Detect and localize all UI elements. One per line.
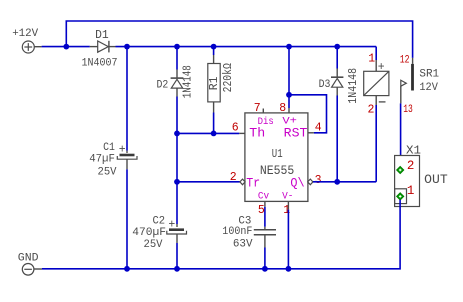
wire: D2/C2 branch vertical: [176, 47, 178, 269]
pin 2 Tr inverted pin diamond: [240, 179, 245, 185]
pin number 1 (X1): [407, 184, 415, 198]
svg-text:+12V: +12V: [12, 28, 38, 40]
pin name Dis: [258, 116, 274, 128]
pin number 2 (coil): [368, 104, 375, 117]
relay coil K1 (SR1): [364, 60, 389, 105]
IC U1 NE555 body: [245, 113, 308, 201]
label SR1: [419, 69, 439, 81]
label C2: [153, 216, 176, 232]
pin number 6: [232, 121, 239, 134]
svg-text:R1: R1: [208, 76, 221, 90]
value 1N4148 (vertical): [181, 65, 194, 98]
pin number 4: [315, 121, 322, 134]
net label GND: [18, 253, 39, 265]
junction: Th net / R1 bottom: [211, 131, 217, 137]
value 12V: [419, 82, 438, 94]
label C1: [103, 142, 126, 157]
pin name V+: [282, 117, 297, 128]
value 1N4007: [82, 58, 118, 70]
svg-text:1N4148: 1N4148: [181, 65, 194, 98]
X1 pin 2 pad (green diamond): [397, 166, 404, 173]
wire: Cv branch with C3: [264, 201, 266, 268]
label D3: [319, 79, 331, 91]
capacitor C1: [117, 151, 137, 170]
diode D2: [171, 70, 184, 97]
label D1: [95, 28, 109, 42]
pin number 2 (X1): [407, 159, 415, 173]
wire: relay coil branch: [375, 47, 377, 182]
pin number 1 (coil): [368, 53, 375, 66]
junction: D1 cathode / C1: [124, 44, 130, 50]
value 1N4148 (vertical): [347, 68, 360, 104]
net label +12V: [12, 28, 38, 40]
svg-text:1: 1: [283, 204, 290, 217]
svg-text:U1: U1: [272, 147, 283, 161]
junction: Th net / D2 branch: [174, 131, 180, 137]
pin number 2: [230, 171, 237, 184]
svg-text:Cv: Cv: [258, 192, 269, 203]
wire: Th net horizontal: [177, 132, 245, 134]
value 63V: [233, 239, 253, 251]
svg-text:3: 3: [315, 174, 322, 187]
svg-text:5: 5: [258, 204, 265, 217]
svg-text:470µF: 470µF: [132, 227, 166, 239]
value 100nF: [222, 226, 252, 238]
value 470µF: [132, 227, 166, 239]
svg-text:25V: 25V: [98, 167, 117, 179]
svg-text:1: 1: [407, 184, 415, 198]
svg-text:OUT: OUT: [424, 173, 448, 187]
pin 3 Q inverted pin diamond: [308, 179, 313, 185]
junction: rail / V+ branch: [286, 44, 292, 50]
svg-text:1N4148: 1N4148: [347, 68, 360, 104]
pin name Th: [249, 126, 265, 141]
label D2: [157, 80, 169, 92]
supply terminal +12V: [22, 41, 41, 53]
wire: main +12V rail: [42, 46, 377, 48]
junction: rail / R1 branch: [211, 44, 217, 50]
junction: Tr net / C2 branch: [174, 179, 180, 185]
wire: V- branch vertical: [287, 201, 289, 268]
pin name V-: [282, 192, 293, 203]
label OUT: [424, 173, 448, 187]
pin name Q\: [290, 175, 304, 190]
label X1: [406, 145, 421, 158]
value 25V: [144, 239, 163, 251]
svg-text:D3: D3: [319, 79, 331, 91]
svg-text:25V: 25V: [144, 239, 163, 251]
svg-text:7: 7: [254, 102, 261, 115]
wire: Tr net horizontal: [177, 181, 240, 183]
svg-text:X1: X1: [406, 145, 421, 158]
svg-text:SR1: SR1: [419, 69, 439, 81]
svg-text:GND: GND: [18, 253, 39, 265]
wire: Tr pin connection from diamond: [313, 181, 376, 183]
svg-text:2: 2: [407, 159, 415, 173]
capacitor C2: [167, 224, 187, 243]
svg-text:1N4007: 1N4007: [82, 58, 118, 70]
pin name RST: [284, 126, 308, 141]
junction: GND / C3: [262, 266, 268, 272]
pin 7 Dis stub: [262, 109, 264, 113]
svg-text:NE555: NE555: [260, 164, 294, 178]
svg-text:6: 6: [232, 121, 239, 134]
svg-text:2: 2: [368, 104, 375, 117]
diode D1: [90, 41, 116, 53]
pin number 8: [279, 102, 286, 115]
svg-text:220kΩ: 220kΩ: [222, 63, 235, 92]
pin 8 V+ stub: [288, 108, 290, 113]
junction: +12V rail / top rail: [63, 44, 69, 50]
svg-text:63V: 63V: [233, 239, 253, 251]
coil plus mark: [378, 61, 385, 74]
junction: Q net / D3: [334, 179, 340, 185]
value 220kΩ (vertical): [222, 63, 235, 92]
value NE555: [260, 164, 294, 178]
pin number 13: [403, 104, 413, 116]
pin number 1: [283, 204, 290, 217]
pin number 7: [254, 102, 261, 115]
capacitor C3: [254, 230, 276, 235]
wire: D3 branch vertical: [336, 47, 338, 182]
svg-text:D1: D1: [95, 28, 109, 42]
svg-text:C1: C1: [103, 142, 115, 154]
pin number 12: [400, 55, 410, 67]
svg-text:12: 12: [400, 55, 410, 67]
junction: GND / C2: [174, 266, 180, 272]
svg-text:1: 1: [368, 53, 375, 66]
svg-text:V-: V-: [282, 192, 293, 203]
wire: top rail from +12V junction to relay contact pin 12: [66, 21, 412, 58]
wire: contact to X1 pin 2: [400, 103, 402, 166]
label U1: [272, 147, 283, 161]
label R1 (vertical): [208, 76, 221, 90]
svg-text:+: +: [119, 144, 126, 157]
pin number 3: [315, 174, 322, 187]
svg-text:D2: D2: [157, 80, 169, 92]
label C3: [238, 216, 251, 228]
wire: GND bottom rail: [42, 200, 400, 269]
pin name Tr: [246, 175, 260, 190]
pin name Cv: [258, 192, 269, 203]
resistor R1: [208, 55, 220, 113]
pin number 5: [258, 204, 265, 217]
svg-text:+: +: [168, 219, 175, 232]
relay contact SR1: [401, 58, 414, 104]
svg-text:C2: C2: [153, 216, 166, 228]
value 47µF: [89, 154, 115, 166]
svg-text:12V: 12V: [419, 82, 438, 94]
junction: rail / D2-C2 branch: [174, 44, 180, 50]
svg-text:2: 2: [230, 171, 237, 184]
svg-text:+: +: [378, 61, 385, 74]
svg-text:47µF: 47µF: [89, 154, 115, 166]
value 25V: [98, 167, 117, 179]
diode D3: [331, 69, 343, 96]
junction: GND / V-: [286, 266, 292, 272]
svg-text:100nF: 100nF: [222, 226, 252, 238]
svg-text:Q\: Q\: [290, 175, 304, 190]
junction: rail / D3 branch: [334, 44, 340, 50]
junction: V+ / RST: [286, 92, 292, 98]
svg-text:8: 8: [279, 102, 286, 115]
svg-text:RST: RST: [284, 126, 308, 141]
svg-text:13: 13: [403, 104, 413, 116]
X1 pin 1 pad (green diamond): [397, 193, 404, 200]
wire: V+ branch vertical with RST loop: [289, 47, 327, 133]
svg-text:Tr: Tr: [246, 175, 260, 190]
svg-text:Th: Th: [249, 126, 265, 141]
junction: GND / C1: [124, 266, 130, 272]
wire: C1 branch vertical: [126, 47, 128, 269]
wire: R1 branch vertical: [213, 47, 215, 134]
ground terminal GND: [22, 264, 42, 276]
connector X1: [395, 156, 420, 207]
coil minus mark: [379, 101, 386, 103]
